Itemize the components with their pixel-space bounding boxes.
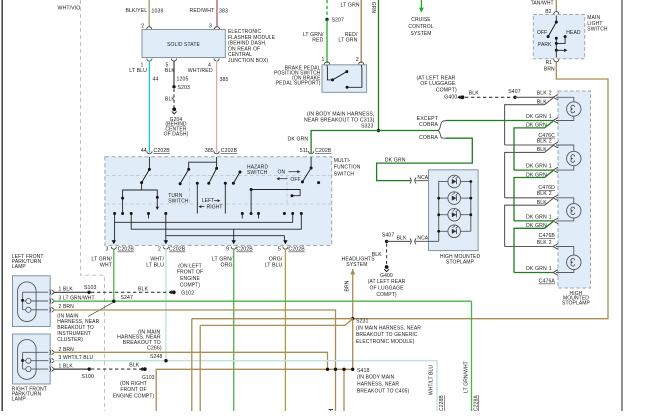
- svg-text:BRN: BRN: [63, 304, 74, 310]
- mfs internal dashed separators: [106, 175, 331, 177]
- svg-text:COMPT): COMPT): [180, 282, 201, 288]
- wire WHT/LT BLU horizontal: [54, 361, 438, 411]
- flasher module box U1 SOLID STATE: [142, 30, 225, 58]
- svg-text:BLK: BLK: [537, 138, 548, 144]
- svg-text:R1: R1: [546, 60, 553, 66]
- svg-text:BRN: BRN: [344, 280, 350, 291]
- bulb 3 wiring: [505, 197, 553, 199]
- right front lamp box: [13, 334, 51, 384]
- wire BRN S231 down branch: [352, 319, 354, 370]
- svg-text:9: 9: [226, 247, 229, 253]
- svg-text:1039: 1039: [152, 9, 164, 15]
- svg-text:STOPLAMP: STOPLAMP: [446, 260, 475, 266]
- svg-text:1: 1: [322, 57, 325, 63]
- svg-text:COBRA: COBRA: [419, 135, 438, 141]
- svg-text:LT GRN/WHT: LT GRN/WHT: [63, 295, 95, 301]
- svg-text:ENGINE COMPT): ENGINE COMPT): [113, 393, 155, 399]
- svg-text:383: 383: [219, 9, 228, 15]
- svg-text:1: 1: [549, 164, 552, 170]
- wire LT GRN/WHT vertical pin3: [113, 249, 115, 301]
- svg-text:COMPT): COMPT): [376, 292, 397, 298]
- svg-text:ELECTRONIC MODULE): ELECTRONIC MODULE): [356, 339, 415, 345]
- svg-text:BLK: BLK: [537, 200, 548, 206]
- wire BRN S231 left branch: [192, 318, 353, 320]
- wire RED/WHT 383: [216, 0, 218, 27]
- svg-text:1205: 1205: [177, 77, 189, 83]
- svg-text:C228A: C228A: [474, 395, 480, 411]
- svg-text:CONTROL: CONTROL: [408, 24, 433, 30]
- svg-text:LT GRN: LT GRN: [338, 38, 357, 44]
- ground G400 top symbol: [461, 95, 465, 99]
- splice S231: [351, 317, 354, 320]
- svg-text:OFF: OFF: [290, 177, 300, 183]
- svg-text:DK GRN: DK GRN: [526, 266, 547, 272]
- svg-text:LT BLU: LT BLU: [146, 263, 164, 269]
- svg-text:HEAD: HEAD: [566, 30, 581, 36]
- svg-text:(IN BODY MAIN: (IN BODY MAIN: [357, 375, 395, 381]
- mfs switch blades from pin 385: [189, 157, 217, 169]
- svg-text:2: 2: [549, 240, 552, 246]
- svg-text:SYSTEM: SYSTEM: [346, 262, 367, 268]
- LED ladder: [438, 181, 440, 242]
- svg-text:B2: B2: [545, 9, 551, 15]
- callout line to S247: [88, 303, 113, 317]
- ground G102: [172, 290, 176, 294]
- svg-text:G400: G400: [444, 94, 457, 100]
- mfs hazard contact: [317, 181, 320, 184]
- wire BLK S407 to NCA: [387, 240, 411, 242]
- high mounted stoplamp LED box: [429, 170, 479, 251]
- wire BLK left lamp: [54, 291, 90, 293]
- svg-text:2: 2: [141, 23, 144, 29]
- svg-text:5: 5: [278, 247, 281, 253]
- splice S203: [172, 85, 175, 88]
- svg-text:S407: S407: [382, 233, 395, 239]
- svg-text:G102: G102: [181, 290, 194, 296]
- svg-text:CRUISE: CRUISE: [411, 17, 431, 23]
- ground G103: [143, 367, 147, 371]
- wire TAN/WHT: [555, 0, 557, 12]
- mfs contact dot row: [113, 212, 116, 215]
- svg-text:3: 3: [209, 23, 212, 29]
- svg-text:LT BLU: LT BLU: [129, 68, 147, 74]
- wire DK GRN cobra branch: [377, 138, 473, 180]
- svg-text:44: 44: [153, 77, 159, 83]
- wire BRN left lamp horizontal: [54, 310, 336, 369]
- svg-text:(ON LEFT: (ON LEFT: [178, 263, 202, 269]
- svg-text:LAMP: LAMP: [12, 264, 27, 270]
- svg-text:DK GRN: DK GRN: [526, 123, 547, 129]
- left lamp bulb symbol: [18, 282, 36, 322]
- brake pedal switch box: [322, 65, 367, 93]
- pin R1: [554, 59, 559, 62]
- svg-text:OF LUGGAGE: OF LUGGAGE: [420, 81, 456, 87]
- svg-text:PEDAL SUPPORT): PEDAL SUPPORT): [276, 81, 321, 87]
- wire RED/LT GRN: [360, 0, 362, 63]
- svg-text:RED: RED: [312, 38, 323, 44]
- svg-text:BLK: BLK: [537, 191, 548, 197]
- svg-text:S103: S103: [84, 285, 97, 291]
- svg-text:TAN/WHT: TAN/WHT: [531, 0, 554, 6]
- svg-text:LAMP: LAMP: [12, 397, 27, 403]
- svg-text:2: 2: [59, 304, 62, 310]
- svg-text:SWITCH: SWITCH: [587, 26, 608, 32]
- left lamp pin lines: [23, 291, 49, 293]
- brace split except-cobra/cobra: [438, 121, 446, 139]
- wire DK GRN left branch to pin 511: [311, 131, 378, 154]
- label OFF arrow: [278, 178, 288, 180]
- svg-text:HARNESS, NEAR: HARNESS, NEAR: [357, 382, 399, 388]
- wire BLK 1205: [173, 61, 175, 87]
- wire LT GRN to brake switch: [326, 19, 328, 63]
- svg-text:C202B: C202B: [169, 247, 186, 253]
- svg-text:STOPLAMP: STOPLAMP: [562, 301, 591, 307]
- splice S407 top: [513, 96, 516, 99]
- bulb 2 wiring: [505, 144, 553, 146]
- wire WHT/LT BLU vertical pin2: [165, 249, 167, 361]
- svg-text:DK GRN: DK GRN: [370, 0, 376, 13]
- svg-text:S247: S247: [121, 295, 134, 301]
- svg-text:ON: ON: [278, 169, 286, 175]
- right lamp bulb symbol: [18, 340, 36, 380]
- svg-text:FUNCTION: FUNCTION: [334, 165, 361, 171]
- wire BLK dashed to G103: [91, 368, 142, 370]
- mfs pin 5 drop: [283, 236, 285, 241]
- svg-text:DK GRN: DK GRN: [526, 114, 547, 120]
- svg-text:WHT/RED: WHT/RED: [188, 68, 213, 74]
- bulb 4 wiring: [505, 246, 553, 248]
- wire BRN up branch with arrow: [352, 275, 354, 319]
- svg-text:BLK: BLK: [129, 363, 140, 369]
- svg-text:BREAKOUT TO GENERIC: BREAKOUT TO GENERIC: [356, 332, 418, 338]
- mfs switch blade from pin 44: [148, 157, 150, 169]
- mls internal contacts: [555, 16, 557, 23]
- svg-text:ORG: ORG: [220, 263, 232, 269]
- splice S207: [325, 18, 328, 21]
- mfs hazard blade from pin 511: [310, 157, 312, 168]
- svg-text:WHT/VIO: WHT/VIO: [58, 5, 81, 11]
- svg-text:385: 385: [220, 77, 229, 83]
- splice S407 bottom: [385, 240, 388, 243]
- svg-text:S407: S407: [508, 89, 521, 95]
- svg-text:RIGHT: RIGHT: [207, 205, 223, 211]
- svg-text:S231: S231: [356, 319, 369, 325]
- svg-text:2: 2: [356, 57, 359, 63]
- wire BLK to G204 dashed: [173, 89, 175, 108]
- svg-text:DK GRN: DK GRN: [288, 137, 309, 143]
- svg-text:OFF: OFF: [537, 30, 547, 36]
- wire BLK dashed from G400: [465, 96, 513, 98]
- svg-text:(AT LEFT REAR: (AT LEFT REAR: [368, 279, 406, 285]
- main light switch box: [533, 15, 584, 59]
- svg-text:SOLID STATE: SOLID STATE: [167, 42, 200, 48]
- svg-text:(IN MAIN HARNESS, NEAR: (IN MAIN HARNESS, NEAR: [356, 326, 421, 332]
- wire BRN right lamp: [54, 352, 328, 369]
- svg-text:BLK: BLK: [537, 100, 548, 106]
- svg-text:C476B: C476B: [539, 233, 556, 239]
- svg-text:NEAR BREAKOUT TO C313): NEAR BREAKOUT TO C313): [304, 117, 375, 123]
- svg-text:DK GRN: DK GRN: [526, 164, 547, 170]
- svg-text:BRN: BRN: [544, 67, 555, 73]
- ground G204: [172, 107, 176, 111]
- svg-text:S323: S323: [361, 124, 374, 130]
- right lamp pin lines: [23, 351, 49, 353]
- wire BLK dashed to G102: [91, 291, 171, 293]
- svg-text:COMPT): COMPT): [436, 88, 457, 94]
- svg-text:COBRA: COBRA: [419, 122, 438, 128]
- svg-text:BLK: BLK: [138, 287, 149, 293]
- wire BRN from main light switch: [353, 62, 608, 319]
- wire LT BLU 44 vertical: [148, 61, 150, 153]
- svg-text:DK GRN: DK GRN: [526, 223, 547, 229]
- svg-text:1: 1: [549, 114, 552, 120]
- svg-text:C228B: C228B: [439, 395, 445, 411]
- svg-text:1: 1: [549, 266, 552, 272]
- svg-text:BLK: BLK: [537, 147, 548, 153]
- svg-text:DK GRN: DK GRN: [385, 158, 406, 164]
- svg-text:LT GRN/WHT: LT GRN/WHT: [463, 361, 469, 393]
- wire LT GRN dashed from top: [326, 0, 328, 17]
- svg-text:BLK: BLK: [469, 91, 480, 97]
- svg-text:LEFT: LEFT: [202, 198, 215, 204]
- NCA connector bottom: [410, 238, 416, 244]
- wire DK GRN vertical from top: [378, 0, 380, 131]
- svg-text:DK GRN: DK GRN: [526, 214, 547, 220]
- svg-text:OF LUGGAGE: OF LUGGAGE: [369, 286, 404, 292]
- cut-off symbol at bottom edge: [329, 410, 334, 411]
- svg-text:NCA: NCA: [417, 236, 428, 242]
- svg-text:MULTI-: MULTI-: [334, 158, 351, 164]
- page right border: [621, 0, 623, 411]
- svg-text:BLK: BLK: [165, 68, 176, 74]
- svg-text:BLK: BLK: [372, 252, 383, 258]
- wire LT GRN/WHT horizontal: [54, 300, 472, 302]
- cruise control system wire arrow: [420, 0, 422, 8]
- svg-text:S207: S207: [332, 18, 345, 24]
- svg-text:2: 2: [549, 191, 552, 197]
- wire BRN S231 diagonal branch: [200, 319, 353, 326]
- rear lamp panel box: [558, 91, 591, 288]
- ground G400 bottom: [385, 265, 389, 269]
- svg-text:SWITCH: SWITCH: [334, 172, 355, 178]
- wire BLK right lamp: [54, 368, 90, 370]
- svg-text:385: 385: [205, 148, 214, 154]
- svg-text:BLK: BLK: [537, 91, 548, 97]
- svg-text:C202B: C202B: [221, 148, 238, 154]
- svg-text:SYSTEM: SYSTEM: [410, 31, 431, 37]
- svg-text:FRONT OF: FRONT OF: [177, 270, 203, 276]
- svg-text:ENGINE: ENGINE: [180, 276, 200, 282]
- svg-text:C202B: C202B: [154, 148, 171, 154]
- svg-text:BLK: BLK: [165, 97, 176, 103]
- svg-text:C266): C266): [147, 346, 162, 352]
- svg-text:LT BLU: LT BLU: [265, 263, 283, 269]
- svg-text:1: 1: [549, 214, 552, 220]
- splice S247: [112, 300, 115, 303]
- splice S103: [87, 291, 90, 294]
- wire LT GRN/ORG vertical pin9: [233, 249, 235, 411]
- multifunction switch box: [105, 157, 332, 246]
- svg-text:2: 2: [549, 138, 552, 144]
- svg-text:JUNCTION BOX): JUNCTION BOX): [228, 58, 268, 64]
- svg-text:3: 3: [106, 247, 109, 253]
- svg-text:2: 2: [549, 91, 552, 97]
- svg-text:G103: G103: [142, 375, 155, 381]
- svg-text:OF DASH): OF DASH): [164, 132, 189, 138]
- splice S418 dots: [326, 368, 329, 371]
- svg-text:44: 44: [141, 148, 147, 154]
- page left border: [1, 0, 3, 411]
- svg-text:C202B: C202B: [236, 247, 253, 253]
- label RIGHT arrow: [199, 206, 204, 208]
- svg-text:BLK: BLK: [397, 236, 408, 242]
- mfs contacts below 385 blades: [196, 182, 199, 185]
- wire LT GRN/WHT down leg: [471, 301, 473, 411]
- wire WHT/RED 385 vertical: [216, 61, 218, 153]
- svg-text:S100: S100: [82, 374, 95, 380]
- svg-text:SWITCH: SWITCH: [168, 199, 189, 205]
- wire DK GRN except-cobra branch: [446, 120, 553, 122]
- svg-text:DK GRN: DK GRN: [526, 172, 547, 178]
- svg-text:BREAKOUT TO C405): BREAKOUT TO C405): [357, 389, 410, 395]
- wire BLK/YEL 1039: [148, 0, 150, 27]
- svg-text:C202B: C202B: [315, 148, 332, 154]
- svg-text:RED/WHT: RED/WHT: [190, 8, 216, 14]
- svg-text:WHT/LT BLU: WHT/LT BLU: [428, 365, 434, 396]
- wire BLK dashed S407 to G400 bottom: [386, 244, 388, 265]
- mfs hazard bus: [251, 190, 300, 196]
- splice S248: [164, 359, 167, 362]
- svg-text:G400: G400: [380, 273, 393, 279]
- svg-text:S418: S418: [357, 368, 370, 374]
- mfs pin 9 drop: [233, 235, 235, 241]
- svg-text:PARK: PARK: [538, 42, 552, 48]
- svg-text:C202B: C202B: [118, 247, 135, 253]
- mfs pin 2 drop: [165, 236, 167, 241]
- wire DK GRN right branch to brace: [379, 130, 439, 132]
- svg-text:3: 3: [59, 295, 62, 301]
- wire BRN S418 row: [156, 369, 353, 411]
- mfs pin 3 drop: [114, 222, 116, 240]
- splice S323: [377, 129, 380, 132]
- wire ORG/LT BLU vertical pin5: [284, 249, 286, 411]
- svg-text:(ON RIGHT: (ON RIGHT: [120, 381, 147, 387]
- svg-text:S248: S248: [150, 354, 163, 360]
- svg-text:C202B: C202B: [288, 247, 305, 253]
- svg-text:511: 511: [300, 148, 309, 154]
- svg-text:CLUSTER): CLUSTER): [57, 337, 83, 343]
- svg-text:BLK: BLK: [537, 240, 548, 246]
- svg-text:LT GRN: LT GRN: [341, 3, 360, 9]
- svg-text:S203: S203: [178, 85, 191, 91]
- wire BLK to first bulb: [515, 96, 553, 98]
- splice S100: [88, 367, 91, 370]
- svg-text:FRONT OF: FRONT OF: [120, 387, 146, 393]
- svg-text:SWITCH: SWITCH: [247, 170, 268, 176]
- mfs bottom buses: [115, 214, 293, 223]
- brake switch contacts: [327, 65, 333, 80]
- harness boundary dashed line: [81, 0, 105, 411]
- NCA connector top: [410, 178, 416, 184]
- svg-text:BLK/YEL: BLK/YEL: [126, 8, 148, 14]
- left lamp box: [13, 276, 51, 327]
- svg-text:2: 2: [158, 247, 161, 253]
- svg-text:WHT: WHT: [100, 263, 113, 269]
- svg-text:C476A: C476A: [539, 279, 556, 285]
- mfs turn switch bus: [123, 190, 158, 198]
